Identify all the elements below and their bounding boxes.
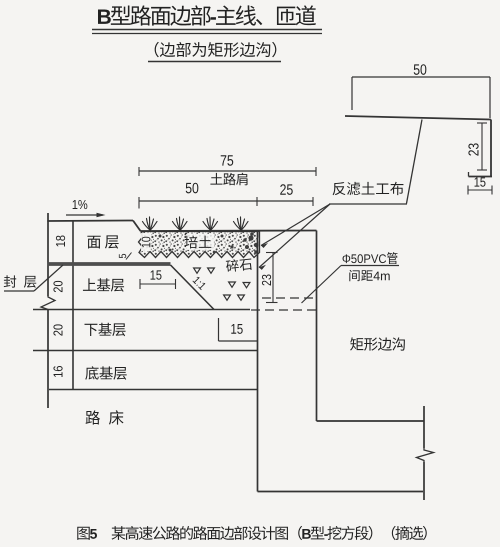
ditch right wall upper [423,406,425,448]
lower base label [84,323,125,336]
fill dark clumps [146,232,258,254]
pvc pipe dashed top [262,297,316,299]
pipe spacing label [349,270,389,281]
leader from berm to geotextile label [407,120,423,204]
ground line to ditch [141,230,317,233]
dim 50 label [186,183,199,194]
gravel label [226,257,253,272]
second vertical line [72,221,74,390]
surface course label [87,235,118,248]
pvc label [343,252,398,264]
dim 15 tick and line at lower base [218,318,220,341]
dim 50 label [414,64,427,75]
roadbed label [86,410,124,424]
seal layer thick line [47,262,170,266]
dim 15 line top-right [468,189,492,191]
gravel triangle 5 [224,295,231,300]
lower base boundary [33,350,258,352]
dim 75 line [139,170,316,172]
subbase boundary [49,389,258,391]
gravel triangle 4 [243,283,250,288]
dim 23 gravel label [262,275,271,286]
label 1 percent [73,200,88,209]
upper base label [83,278,124,291]
subtitle underline [148,61,281,63]
left vertical lower [47,310,49,408]
dim 20 rotated upper [53,281,62,292]
gravel triangle 6 [238,295,245,300]
left vertical upper [47,213,49,296]
dim 23 label top-right [468,143,478,155]
pvc label underline [341,265,399,267]
gravel triangle 3 [229,282,236,287]
grass tuft 4 [234,217,249,230]
upper base boundary [33,309,250,311]
ditch bottom [317,420,425,422]
berm surface line [345,116,491,120]
subtitle [155,42,277,57]
grass tuft 1 [143,217,158,230]
dim 50 ext ticks [351,77,353,110]
geotextile leader A [261,204,330,246]
dim 50 top-right line [352,76,490,78]
dim 15 label top-right [475,177,486,186]
gravel triangle 1 [194,268,201,273]
label 5 rotated [119,254,126,258]
slope arrow [66,214,103,216]
dim 15 line small [140,283,176,285]
gravel triangle 2 [208,268,215,273]
dim 15 label lower [231,324,242,334]
dim 50-25 line [139,200,313,202]
dim 18 rotated [56,236,65,247]
label 10 rotated [141,233,151,251]
dim 75 label [221,155,233,165]
subbase label [85,366,126,380]
label pei-tu [186,234,214,250]
berm right wall [490,120,492,177]
dim 25 label [280,184,293,195]
seal label underline and leader [4,290,34,292]
bottom ground line [258,491,424,493]
title underline double [92,29,322,31]
dim 23 v-line top-right [481,123,483,170]
label soil shoulder [210,173,247,186]
label fan-lu-tu-gong-bu [333,182,404,195]
grass tuft 3 [203,217,218,230]
fill soil area with stipple [139,232,260,258]
dim 20 rotated lower [53,324,62,335]
pvc pipe dashed bottom [251,309,316,311]
geotextile label underline [329,203,407,205]
grass tuft 2 [173,217,188,230]
slope diagonal 1:1 [171,265,215,310]
caption [77,526,427,540]
geotextile leader B [259,204,330,268]
pavement right edge vertical [257,231,259,492]
title text [98,5,316,25]
left vertical break symbol [41,296,55,310]
surface bevel to fill [133,221,141,232]
berm shelf [469,176,493,178]
ditch label [350,337,405,350]
pvc leader [302,266,342,304]
ditch left wall [316,231,318,422]
seal layer label [4,275,36,288]
slope 1:1 label [192,276,206,290]
dim 16 rotated [53,366,62,377]
berm shelf stub [468,172,470,177]
dim 15 small label [151,270,162,279]
ditch wall break symbol [417,448,434,462]
ditch right wall lower [423,462,425,500]
dim 23 gravel line [272,253,274,303]
road surface line [47,220,133,223]
